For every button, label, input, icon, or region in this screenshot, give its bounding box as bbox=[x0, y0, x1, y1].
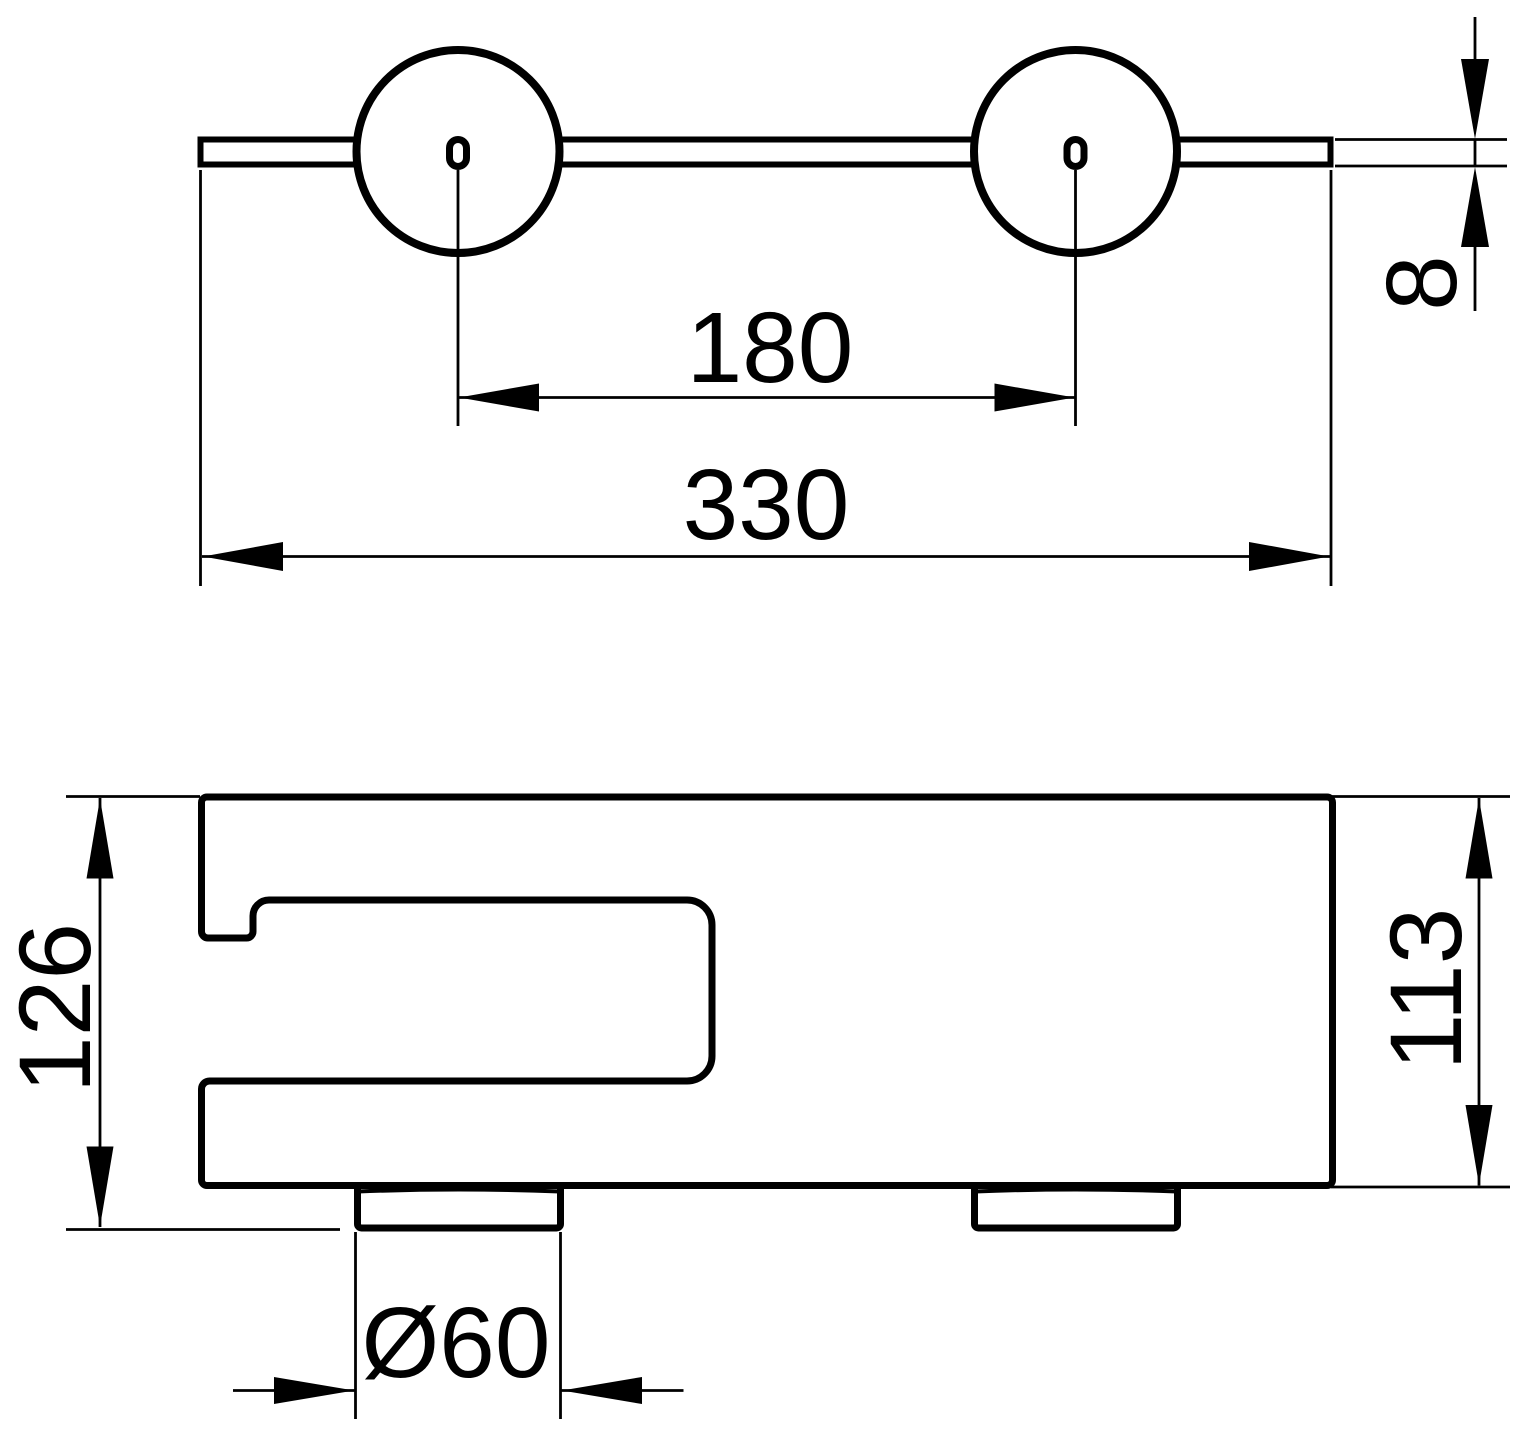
screw slot left bbox=[450, 140, 467, 167]
extension line D60 left bbox=[354, 1232, 357, 1419]
dimension line D60 left with arrow bbox=[233, 1389, 355, 1392]
top view: mounting bar bbox=[201, 140, 1331, 165]
svg-text:330: 330 bbox=[683, 449, 850, 561]
wall plate circle right bbox=[974, 50, 1177, 253]
extension line 8 top (bar top edge) bbox=[1335, 138, 1507, 141]
side view body outline with towel-slot bbox=[202, 797, 1333, 1186]
left foot outline bbox=[358, 1189, 561, 1228]
svg-text:Ø60: Ø60 bbox=[361, 1287, 550, 1399]
extension line 180 left (from slot centre) bbox=[457, 170, 460, 426]
svg-text:113: 113 bbox=[1369, 908, 1483, 1071]
extension line 330 left bbox=[199, 170, 202, 586]
dimension line 113 bbox=[1478, 798, 1481, 1186]
left foot top arc bbox=[358, 1190, 560, 1192]
extension line 180 right (from slot centre) bbox=[1074, 170, 1077, 426]
svg-text:8: 8 bbox=[1366, 255, 1478, 311]
screw slot right bbox=[1067, 140, 1084, 167]
right foot top arc bbox=[975, 1190, 1177, 1192]
extension line 126 top bbox=[66, 795, 200, 798]
extension line 113 bottom bbox=[1331, 1186, 1510, 1189]
dimension line 8 (vertical, arrows outside) bbox=[1474, 17, 1477, 61]
dimension line D60 right with arrow bbox=[561, 1389, 684, 1392]
svg-text:180: 180 bbox=[687, 292, 854, 404]
dimension line 330 bbox=[202, 555, 1330, 558]
right foot outline bbox=[975, 1189, 1178, 1228]
extension line 126 bottom bbox=[66, 1228, 340, 1231]
extension line D60 right bbox=[559, 1232, 562, 1419]
extension line 113 top bbox=[1331, 795, 1510, 798]
extension line 330 right bbox=[1330, 170, 1333, 586]
dimension line 126 bbox=[99, 798, 102, 1227]
dimension line 180 bbox=[458, 396, 1076, 399]
wall plate circle left bbox=[357, 50, 560, 253]
extension line 8 bottom (bar bottom edge) bbox=[1335, 165, 1507, 168]
svg-text:126: 126 bbox=[0, 923, 112, 1093]
